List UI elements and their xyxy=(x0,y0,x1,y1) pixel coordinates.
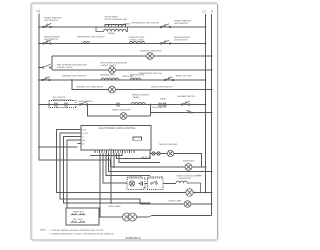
svg-text:* OVEN LAMP: * OVEN LAMP xyxy=(168,200,182,203)
junction dot fan-L2 xyxy=(205,192,207,194)
switch lower branch xyxy=(187,110,193,114)
svg-text:UNIT SWITCH: UNIT SWITCH xyxy=(174,39,188,42)
border frame xyxy=(31,3,218,240)
svg-text:FAN MOTOR: FAN MOTOR xyxy=(179,177,192,180)
svg-text:OVEN LIGHT SWITCH: OVEN LIGHT SWITCH xyxy=(151,86,173,89)
text labels layer xyxy=(40,16,202,241)
svg-text:BROIL INDICATOR: BROIL INDICATOR xyxy=(113,109,131,112)
junction dot rung2-L2 xyxy=(205,43,207,45)
wire oven lamp left row xyxy=(123,216,212,218)
lamp broil indicator xyxy=(120,113,127,120)
contact pair rung7b xyxy=(159,103,161,107)
junction dot rung4-N xyxy=(211,69,213,71)
wire comb drop b xyxy=(103,153,127,183)
svg-text:2350W: 2350W xyxy=(124,23,131,26)
dashed box door motor xyxy=(127,178,145,190)
svg-text:3000W: 3000W xyxy=(108,32,115,35)
wire EOC pin 5 from L1 xyxy=(39,146,78,148)
wire L2 rail xyxy=(205,14,207,193)
wire EOC left pin 1 xyxy=(57,130,212,193)
junction dot rung1-L2 xyxy=(205,26,207,28)
EOC display symbol xyxy=(133,137,142,140)
resistor broil portion xyxy=(130,78,141,80)
junction dot branch-N xyxy=(211,112,213,114)
junction dot lamp-N xyxy=(211,203,213,205)
svg-text:BROILER UNIT: BROILER UNIT xyxy=(130,74,145,77)
wire rung5 xyxy=(39,79,206,81)
resistor element dual top xyxy=(104,25,126,27)
switch limiter rung1 xyxy=(160,24,171,28)
junction dot branch tap xyxy=(150,104,152,106)
svg-text:1. CIRCUIT SHOWN WITH ALL CON: 1. CIRCUIT SHOWN WITH ALL CONTROLS SET T… xyxy=(50,229,105,232)
svg-text:THERMOSTAT UNIT SWITCH: THERMOSTAT UNIT SWITCH xyxy=(77,36,106,39)
svg-text:2. CONNECTORS WITH * ON SET T: 2. CONNECTORS WITH * ON SET TOP APPLIES … xyxy=(50,232,114,235)
junction dot comb-f air xyxy=(113,166,115,168)
node L1 label xyxy=(37,9,41,13)
svg-text:3400W: 3400W xyxy=(133,96,140,99)
junction dot hot-surface-L1 xyxy=(38,67,40,69)
switch burner rung7 xyxy=(181,101,190,105)
wire comb drop i xyxy=(90,153,122,156)
dashed box door shunt xyxy=(49,101,76,108)
svg-text:OVEN SWITCH: OVEN SWITCH xyxy=(78,100,93,103)
svg-text:SURFACE INDICATOR: SURFACE INDICATOR xyxy=(140,50,162,53)
switch oven switch xyxy=(79,101,88,105)
svg-text:316255044: 316255044 xyxy=(126,236,141,240)
contact pair rung7 xyxy=(117,103,122,107)
contact ticks in door shunt box xyxy=(55,103,67,107)
resistor broil element xyxy=(131,103,145,105)
svg-text:L1: L1 xyxy=(37,9,41,13)
fan convection motor xyxy=(186,189,193,196)
svg-text:P06 PLUG: P06 PLUG xyxy=(141,156,151,159)
box high limit xyxy=(66,208,99,225)
svg-text:DOOR SHUNT BAKE: DOOR SHUNT BAKE xyxy=(52,99,73,102)
svg-text:FRONT SURFACE UNIT: FRONT SURFACE UNIT xyxy=(105,18,129,21)
EOC bottom connector comb xyxy=(95,150,135,153)
thermal switch high limit xyxy=(71,213,86,215)
rung oven lamp right xyxy=(140,203,212,205)
motor door motor xyxy=(129,181,134,186)
junction dot fan-195 xyxy=(194,192,196,194)
switch thermostat mid rung2 xyxy=(83,42,90,44)
svg-text:P1: P1 xyxy=(110,148,112,151)
svg-text:HIGH LIMIT: HIGH LIMIT xyxy=(73,210,85,213)
lamp oven lamp left pair xyxy=(123,213,137,221)
node L2 label xyxy=(203,10,207,14)
svg-text:* 120V: * 120V xyxy=(196,174,202,177)
svg-text:N: N xyxy=(211,10,213,14)
junction dot rung3-N xyxy=(211,55,213,57)
svg-text:UNIT SWITCH: UNIT SWITCH xyxy=(44,38,58,41)
svg-text:WARMER UNIT: WARMER UNIT xyxy=(100,74,116,77)
fan air intake xyxy=(185,164,192,171)
wire P06 plug row xyxy=(150,150,202,167)
wire rung7 lower branch xyxy=(151,105,212,113)
svg-text:J1 #1: J1 #1 xyxy=(82,129,86,132)
wire comb drop h xyxy=(119,153,160,163)
svg-text:BURNER SWITCH: BURNER SWITCH xyxy=(178,95,196,98)
thermal switch out limit xyxy=(71,221,86,223)
EOC pin stubs left xyxy=(78,130,82,144)
junction dot rung7-L1 xyxy=(38,104,40,106)
svg-text:J3: J3 xyxy=(82,143,84,146)
motor door latch xyxy=(167,150,173,156)
wire comb drop f xyxy=(113,153,115,167)
wire comb drop a xyxy=(100,153,123,217)
svg-text:J2: J2 xyxy=(82,136,84,139)
wire comb drop e xyxy=(110,153,112,203)
svg-text:BROIL UNIT SW: BROIL UNIT SW xyxy=(176,75,192,78)
wire comb drop c xyxy=(106,153,150,176)
svg-text:THERMOSTAT UNIT SWITCH: THERMOSTAT UNIT SWITCH xyxy=(131,22,160,25)
resistor element dual bottom (parallel branch) xyxy=(96,27,128,32)
junction dot rung6 tap xyxy=(71,79,73,81)
junction dot L1-pin5 xyxy=(38,146,40,148)
svg-text:AIR INTAKE: AIR INTAKE xyxy=(183,160,195,163)
junction dot rung2-L1 xyxy=(38,43,40,45)
svg-text:WARMER UNIT INDICATOR: WARMER UNIT INDICATOR xyxy=(76,86,103,89)
lamp oven lamp right xyxy=(184,201,191,208)
dashed box door switch xyxy=(148,178,164,190)
svg-text:1 BOWL 1 RULE: 1 BOWL 1 RULE xyxy=(101,64,117,67)
resistor element rung2 xyxy=(129,41,145,43)
svg-text:ELECTRONIC OVEN CONTROL: ELECTRONIC OVEN CONTROL xyxy=(99,127,136,130)
junction dot air-L2 xyxy=(205,166,207,168)
junction dot rung5-L1 xyxy=(38,79,40,81)
resistor convection element xyxy=(176,181,201,192)
resistor warmer element xyxy=(101,78,119,80)
junction dot comb-d N xyxy=(211,171,213,173)
svg-text:UNIT SWITCH: UNIT SWITCH xyxy=(174,22,188,25)
EOC box: electronic oven control xyxy=(81,126,151,151)
node N label xyxy=(211,10,213,14)
junction dot rung5-L2 xyxy=(205,79,207,81)
wire rung1 xyxy=(39,26,206,28)
svg-text:UNIT SWITCH: UNIT SWITCH xyxy=(44,19,58,22)
svg-text:DOOR MOTOR: DOOR MOTOR xyxy=(128,175,143,178)
lamp surface indicator xyxy=(147,53,154,60)
svg-text:DOOR SWITCH: DOOR SWITCH xyxy=(148,175,164,178)
wire broil indicator branch xyxy=(88,105,151,117)
svg-text:TWELVE PIN PLUG: TWELVE PIN PLUG xyxy=(159,143,178,146)
wire rung3 xyxy=(52,55,212,57)
svg-text:L2: L2 xyxy=(203,10,207,14)
svg-text:1 BOWL 1 RULE: 1 BOWL 1 RULE xyxy=(57,66,73,69)
wire rung2 xyxy=(39,43,206,45)
junction dot comb-e 203 xyxy=(110,202,112,204)
svg-text:GRL: GRL xyxy=(82,139,86,142)
wire N rail xyxy=(211,14,213,216)
wire rung6 xyxy=(72,80,212,90)
lamp warmer indicator xyxy=(109,86,116,93)
svg-text:OUT LIMIT: OUT LIMIT xyxy=(73,218,84,221)
wire EOC left pin 2 xyxy=(60,133,140,204)
wire comb drop d xyxy=(109,153,212,172)
switch rung5 right xyxy=(164,77,174,81)
svg-text:1 BOWL 1 RULE: 1 BOWL 1 RULE xyxy=(129,39,145,42)
wire EOC left pin 4 xyxy=(67,140,78,208)
junction dot rung7-L2 xyxy=(205,104,207,106)
wire comb drop g xyxy=(117,153,151,159)
switch warmer unit xyxy=(42,77,51,81)
contact door switch xyxy=(151,181,158,184)
plug P06 contacts xyxy=(152,152,160,155)
svg-text:LOW AMB TOP: LOW AMB TOP xyxy=(152,106,167,109)
wire door row xyxy=(105,182,177,185)
wire rung4 xyxy=(52,69,212,71)
junction dot rung1-L1 xyxy=(38,26,40,28)
svg-text:* OVEN LAMP: * OVEN LAMP xyxy=(107,205,121,208)
switch front surface unit xyxy=(43,24,52,28)
junction dot fan-N xyxy=(211,192,213,194)
svg-text:J1 OUT: J1 OUT xyxy=(82,132,89,135)
svg-text:WARMER UNIT SWITCH: WARMER UNIT SWITCH xyxy=(62,75,86,78)
switch hot surface at L1 xyxy=(39,56,52,70)
switch rung2 right xyxy=(160,40,171,44)
svg-text:GAGE: GAGE xyxy=(160,98,167,101)
lamp hot surface indicator xyxy=(109,67,116,74)
wire EOC left pin 3 xyxy=(64,137,151,204)
rung air intake xyxy=(111,166,206,168)
wire rung7 xyxy=(39,104,206,106)
switch rear surface unit xyxy=(43,40,52,44)
junction dot rung6-N xyxy=(211,89,213,91)
wire L1 rail xyxy=(39,14,111,168)
contact door motor xyxy=(139,182,146,188)
svg-text:NOTE:: NOTE: xyxy=(40,228,47,231)
